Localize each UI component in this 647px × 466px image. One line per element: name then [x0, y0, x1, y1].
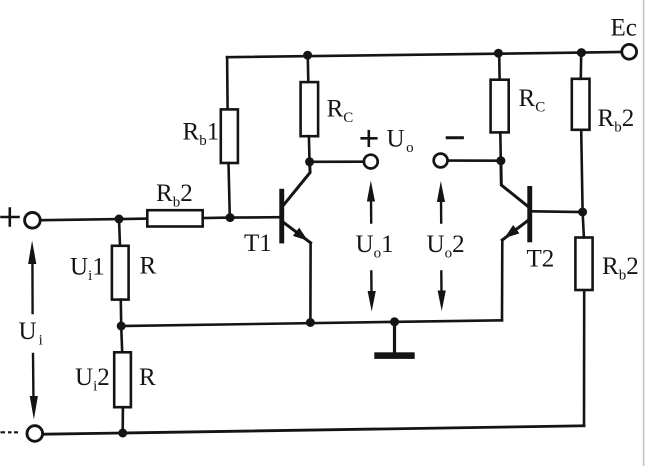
arrow Uo2 down: [440, 272, 443, 296]
node emitter T1: [306, 318, 315, 327]
wire between divider resistors: [120, 300, 123, 326]
node top Rb2: [577, 48, 586, 57]
node input junction: [115, 215, 124, 224]
wire Rb2 lower to base node: [583, 212, 584, 238]
transistor T2: [501, 161, 532, 243]
node divider mid: [117, 322, 126, 331]
resistor Rb2 lower right: [575, 238, 592, 291]
arrow Ui down: [32, 354, 35, 403]
wire common emitter bus: [121, 320, 502, 326]
svg-text:Uo1: Uo1: [356, 231, 394, 262]
wire divider upper: [119, 219, 120, 246]
node collector T2: [496, 156, 505, 165]
svg-text:Rb1: Rb1: [183, 119, 220, 150]
resistor R upper: [112, 246, 129, 300]
label plus input: [2, 209, 19, 226]
wire top supply bus: [227, 52, 622, 57]
wire Rc left riser top: [306, 56, 309, 82]
svg-text:Ec: Ec: [611, 15, 637, 42]
ground: [374, 322, 414, 359]
wire base T2: [532, 210, 582, 213]
resistor Rb2 upper right: [572, 79, 590, 130]
svg-text:Rb2: Rb2: [156, 180, 193, 211]
svg-text:Uo: Uo: [387, 126, 414, 157]
resistor Rc left: [301, 82, 319, 136]
svg-text:Uo2: Uo2: [427, 231, 465, 262]
svg-text:Ui: Ui: [19, 318, 43, 349]
wire to R lower: [121, 326, 122, 352]
wire Rc left riser bottom: [308, 136, 311, 162]
arrow Uo2 up: [440, 198, 443, 223]
terminal input minus: [27, 426, 43, 442]
node ground junction: [390, 317, 399, 326]
label plus output: [362, 131, 377, 146]
label minus input: [1, 431, 19, 433]
svg-text:RC: RC: [519, 85, 546, 116]
arrow Uo1 down: [370, 272, 373, 296]
transistor T1: [279, 162, 311, 245]
wire Rc right riser top: [498, 53, 501, 79]
wire collector node to output plus: [310, 160, 364, 163]
svg-text:R: R: [139, 364, 156, 391]
resistor Rb2 left: [147, 210, 202, 226]
node collector T1: [305, 157, 314, 166]
wire bottom bus: [44, 426, 584, 434]
node base T1: [226, 213, 235, 222]
terminal output minus: [434, 154, 448, 168]
wire Rb2 to base node: [203, 216, 230, 219]
svg-text:T2: T2: [527, 246, 555, 273]
wire emitter T1 down: [309, 243, 312, 323]
wire output minus to collector T2: [448, 159, 501, 162]
node top Rc left: [303, 51, 312, 60]
wire base node to Rb2 upper: [581, 130, 582, 212]
terminal output plus: [364, 155, 378, 169]
svg-text:R: R: [140, 253, 157, 280]
wire Rb1 riser top: [226, 57, 229, 109]
wire emitter T2 down: [501, 240, 504, 320]
resistor Rc right: [491, 80, 509, 133]
terminal input plus: [25, 213, 41, 229]
arrow Ui up: [31, 255, 34, 313]
arrow Uo1 up: [370, 197, 373, 223]
svg-text:RC: RC: [327, 95, 354, 126]
wire base T1: [230, 216, 279, 219]
svg-text:Rb2: Rb2: [598, 105, 635, 136]
wire Rc right riser bottom: [499, 132, 502, 160]
wire input to Rb2: [42, 219, 147, 221]
terminal Ec: [622, 44, 637, 59]
wire Rb1 riser bottom: [229, 163, 230, 218]
wire bottom right riser: [583, 290, 586, 426]
node bottom junction: [118, 429, 127, 438]
resistor R lower: [114, 352, 131, 407]
wire R lower to bottom: [121, 407, 124, 433]
wire Rb2 upper to top bus: [579, 53, 582, 79]
node top Rc right: [494, 49, 503, 58]
svg-text:Ui1: Ui1: [70, 254, 105, 285]
resistor Rb1: [221, 109, 238, 163]
node base T2: [578, 208, 587, 217]
svg-text:Ui2: Ui2: [75, 364, 110, 395]
label minus output: [447, 136, 462, 139]
svg-text:Rb2: Rb2: [602, 253, 639, 284]
svg-text:T1: T1: [244, 230, 272, 257]
